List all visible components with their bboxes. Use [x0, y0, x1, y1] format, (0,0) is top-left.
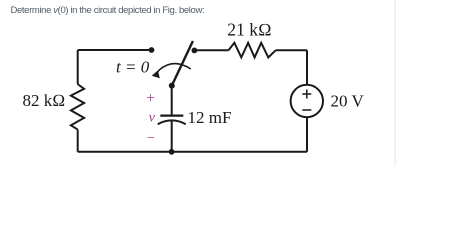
- source V1 minus sign: [302, 109, 311, 111]
- capacitor C1 curved plate: [158, 120, 186, 124]
- node bottom junction: [169, 149, 175, 155]
- resistor R2 82 kOhm: [71, 84, 84, 129]
- svg-text:20 V: 20 V: [331, 92, 365, 111]
- wire capacitor bottom lead: [171, 121, 173, 152]
- divider line right: [395, 0, 397, 166]
- wire capacitor top lead: [171, 86, 173, 116]
- wire left lower: [77, 129, 79, 151]
- resistor R1 21 kOhm: [229, 43, 276, 58]
- wire top-right: [276, 49, 307, 51]
- svg-text:v: v: [149, 111, 156, 126]
- svg-text:t = 0: t = 0: [116, 57, 150, 76]
- svg-text:21 kΩ: 21 kΩ: [227, 20, 271, 40]
- voltage source V1 20V: [291, 85, 323, 117]
- wire top-middle: [194, 49, 228, 51]
- svg-text:−: −: [147, 131, 155, 146]
- capacitor C1 top plate: [160, 114, 183, 116]
- wire right upper: [306, 50, 308, 85]
- wire left upper: [77, 50, 79, 84]
- svg-text:82 kΩ: 82 kΩ: [23, 91, 66, 110]
- switch SW1 blade: [172, 41, 193, 86]
- node switch left contact: [149, 47, 155, 53]
- wire bottom: [78, 151, 307, 153]
- svg-text:+: +: [146, 90, 155, 107]
- wire right lower: [306, 117, 308, 152]
- svg-text:12 mF: 12 mF: [188, 108, 232, 127]
- node switch top contact: [192, 48, 198, 54]
- switch action arrow: [152, 64, 191, 79]
- title text: [11, 5, 205, 16]
- source V1 plus sign: [302, 90, 311, 99]
- wire top-left: [78, 49, 152, 51]
- node switch pivot: [169, 83, 175, 89]
